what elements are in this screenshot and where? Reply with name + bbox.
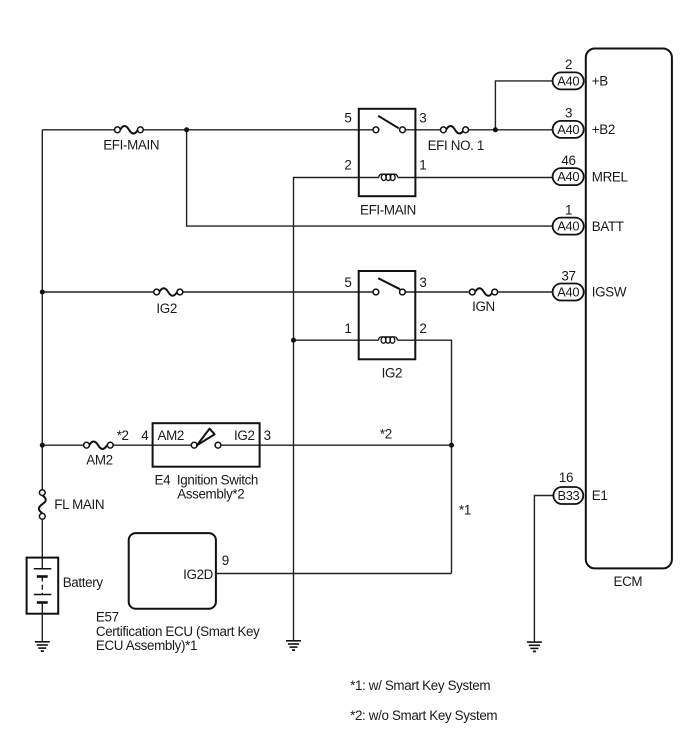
svg-text:IGSW: IGSW xyxy=(592,285,627,300)
svg-text:EFI NO. 1: EFI NO. 1 xyxy=(428,138,484,153)
relay IG2 switch contacts xyxy=(373,289,405,295)
svg-text:Certification ECU (Smart Key: Certification ECU (Smart Key xyxy=(96,624,260,639)
relay EFI-MAIN coil xyxy=(379,174,398,180)
label fuse IG2 xyxy=(156,301,177,316)
certification ECU E57 box xyxy=(129,533,216,609)
svg-text:*2: w/o Smart Key System: *2: w/o Smart Key System xyxy=(350,708,497,723)
wire E1 from B33 connector left then down to ground xyxy=(534,496,553,643)
svg-text:A40: A40 xyxy=(557,219,579,234)
footnote *1 xyxy=(350,678,490,693)
pin 5 relay IG2 xyxy=(344,275,351,290)
pin number 2 xyxy=(565,57,572,72)
label IG2 inside E4 xyxy=(234,428,255,443)
ignition switch E4 key blade xyxy=(197,429,215,446)
pin 4 ignition switch E4 xyxy=(141,428,149,443)
svg-text:Battery: Battery xyxy=(63,575,104,590)
ignition switch E4 box xyxy=(153,423,260,467)
svg-text:3: 3 xyxy=(419,275,426,290)
svg-text:IGN: IGN xyxy=(472,299,495,314)
svg-text:A40: A40 xyxy=(557,122,579,137)
ground under coil bus xyxy=(286,641,301,650)
pin 1 relay EFI-MAIN xyxy=(419,157,426,172)
wire battery negative to ground xyxy=(41,603,43,642)
svg-text:E1: E1 xyxy=(592,488,608,503)
svg-text:A40: A40 xyxy=(557,73,579,88)
svg-text:IG2: IG2 xyxy=(156,301,177,316)
label *2 left of E4 pin 4 xyxy=(117,428,129,443)
junction top row BATT branch xyxy=(184,127,189,132)
svg-text:3: 3 xyxy=(565,106,572,121)
label IGSW xyxy=(592,285,627,300)
label fusible link FL MAIN xyxy=(54,497,104,512)
svg-text:3: 3 xyxy=(419,110,426,125)
wire coil-ground bus from EFI-MAIN relay pin 2 left then down to ground xyxy=(294,178,380,641)
wire IGSW row from left bus to IG2 relay pin 5 xyxy=(42,291,376,293)
wire from IG2 relay pin 3 to IGSW connector xyxy=(402,291,552,293)
fusible link FL MAIN xyxy=(39,490,46,519)
relay EFI-MAIN switch contacts xyxy=(373,127,405,133)
ground under E1 xyxy=(527,642,542,651)
wire IG2D from E57 pin 9 to vertical drop xyxy=(216,573,452,575)
junction coil bus IG2 pin 1 xyxy=(291,338,296,343)
svg-text:Assembly*2: Assembly*2 xyxy=(177,486,244,501)
label E4 Ignition Switch Assembly*2 xyxy=(155,472,259,501)
svg-text:2: 2 xyxy=(419,321,426,336)
svg-text:EFI-MAIN: EFI-MAIN xyxy=(103,138,159,153)
wire from EFI-MAIN relay pin 3 to +B2 connector xyxy=(403,129,553,131)
svg-text:MREL: MREL xyxy=(592,169,628,184)
svg-text:2: 2 xyxy=(344,157,351,172)
svg-text:46: 46 xyxy=(561,153,575,168)
svg-text:AM2: AM2 xyxy=(158,428,184,443)
svg-text:5: 5 xyxy=(344,110,351,125)
label relay IG2 xyxy=(382,366,403,381)
svg-text:FL MAIN: FL MAIN xyxy=(54,497,104,512)
pin 1 relay IG2 xyxy=(344,321,351,336)
pin 5 relay EFI-MAIN xyxy=(344,110,351,125)
pin number 3 xyxy=(565,106,572,121)
svg-text:16: 16 xyxy=(559,470,573,485)
wire left bus vertical from top corner to battery xyxy=(41,130,43,569)
wire top row from left bus to EFI-MAIN relay pin 5 xyxy=(42,129,376,131)
fuse IG2 xyxy=(154,288,183,296)
svg-text:IG2: IG2 xyxy=(382,366,403,381)
label E1 xyxy=(592,488,608,503)
wire from E4 pin 3 to junction with IG2 coil drop xyxy=(218,444,452,446)
svg-text:AM2: AM2 xyxy=(86,453,112,468)
label *2 on wire to junction xyxy=(380,427,392,442)
wire +B branch up from junction to +B connector xyxy=(495,81,552,130)
label fuse IGN xyxy=(472,299,495,314)
wire AM2 row from left bus to E4 pin 4 xyxy=(42,444,194,446)
connector A40 pin 3 (+B2) xyxy=(553,121,584,138)
svg-text:B33: B33 xyxy=(557,488,579,503)
wire IG2 relay coil pin 1 to coil-ground bus xyxy=(294,339,379,341)
svg-text:9: 9 xyxy=(222,553,229,568)
svg-text:1: 1 xyxy=(344,321,351,336)
connector A40 pin 37 (IGSW) xyxy=(553,284,584,301)
pin number 16 xyxy=(559,470,573,485)
svg-text:*2: *2 xyxy=(117,428,129,443)
junction *2 wire and IG2 coil drop xyxy=(449,443,454,448)
svg-text:ECM: ECM xyxy=(614,574,643,589)
pin 3 relay EFI-MAIN xyxy=(419,110,426,125)
pin 3 relay IG2 xyxy=(419,275,426,290)
junction left bus AM2 row xyxy=(40,443,45,448)
fuse EFI NO. 1 xyxy=(441,126,469,134)
label *1 beside drop wire xyxy=(459,503,471,518)
svg-text:4: 4 xyxy=(141,428,149,443)
svg-text:1: 1 xyxy=(419,157,426,172)
label MREL xyxy=(592,169,628,184)
svg-text:*2: *2 xyxy=(380,427,392,442)
svg-text:+B2: +B2 xyxy=(592,122,615,137)
label ECM xyxy=(614,574,643,589)
pin number 1 xyxy=(565,202,572,217)
pin 2 relay EFI-MAIN xyxy=(344,157,351,172)
svg-text:2: 2 xyxy=(565,57,572,72)
wire MREL from EFI-MAIN relay pin 1 to MREL connector xyxy=(398,177,553,179)
svg-text:1: 1 xyxy=(565,202,572,217)
label +B xyxy=(592,74,608,89)
fuse EFI-MAIN xyxy=(115,126,144,134)
svg-text:A40: A40 xyxy=(557,169,579,184)
ignition switch E4 contacts xyxy=(191,442,221,448)
ground under battery xyxy=(35,642,50,651)
junction +B branch xyxy=(493,127,498,132)
label E57 Certification ECU xyxy=(96,609,260,653)
svg-text:ECU Assembly)*1: ECU Assembly)*1 xyxy=(96,638,197,653)
label AM2 inside E4 xyxy=(158,428,184,443)
label Battery xyxy=(63,575,104,590)
pin number 46 xyxy=(561,153,575,168)
relay IG2 switch blade xyxy=(378,278,400,289)
connector B33 pin 16 (E1) xyxy=(553,487,583,504)
fuse AM2 xyxy=(84,441,114,449)
footnote *2 xyxy=(350,708,497,723)
relay EFI-MAIN switch blade xyxy=(378,116,399,129)
svg-text:A40: A40 xyxy=(557,284,579,299)
relay EFI-MAIN box xyxy=(359,109,416,196)
ECM box xyxy=(586,49,672,569)
svg-text:IG2: IG2 xyxy=(234,428,255,443)
svg-text:E4 Ignition Switch: E4 Ignition Switch xyxy=(155,472,259,487)
svg-text:EFI-MAIN: EFI-MAIN xyxy=(360,203,416,218)
wire BATT branch from top-row junction down and right to BATT connector xyxy=(187,130,553,226)
svg-text:IG2D: IG2D xyxy=(183,567,214,582)
svg-text:+B: +B xyxy=(592,74,608,89)
fuse IGN xyxy=(469,288,497,296)
svg-text:37: 37 xyxy=(561,268,575,283)
pin number 37 xyxy=(561,268,575,283)
connector A40 pin 1 (BATT) xyxy=(553,218,584,235)
battery plates xyxy=(34,569,52,603)
svg-text:3: 3 xyxy=(264,428,271,443)
svg-text:BATT: BATT xyxy=(592,219,624,234)
label fuse EFI NO. 1 xyxy=(428,138,484,153)
wire IG2 relay coil pin 2 right then down to IG2D wire xyxy=(397,340,451,573)
svg-text:*1: w/ Smart Key System: *1: w/ Smart Key System xyxy=(350,678,490,693)
svg-text:E57: E57 xyxy=(96,609,119,624)
pin 2 relay IG2 xyxy=(419,321,426,336)
relay IG2 box xyxy=(359,271,416,359)
label BATT xyxy=(592,219,624,234)
connector A40 pin 46 (MREL) xyxy=(553,168,584,185)
connector A40 pin 2 (+B) xyxy=(553,72,584,89)
junction left bus IG2 row xyxy=(40,290,45,295)
label fuse EFI-MAIN xyxy=(103,138,159,153)
svg-text:5: 5 xyxy=(344,275,351,290)
label +B2 xyxy=(592,122,615,137)
pin 3 ignition switch E4 xyxy=(264,428,271,443)
svg-text:*1: *1 xyxy=(459,503,471,518)
relay IG2 coil xyxy=(378,337,397,343)
label fuse AM2 xyxy=(86,453,112,468)
battery box xyxy=(27,558,59,614)
label IG2D inside E57 xyxy=(183,567,214,582)
pin 9 certification ECU E57 xyxy=(222,553,229,568)
label relay EFI-MAIN xyxy=(360,203,416,218)
